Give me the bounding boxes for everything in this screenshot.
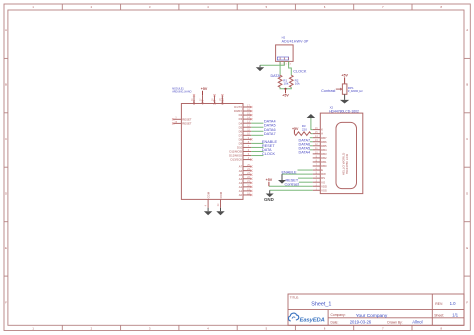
arduino pin D12/MISO [229,152,275,158]
svg-text:E: E [466,246,468,250]
arduino module MODULE1 labels [172,87,191,93]
lcd pin DB3 [313,151,327,156]
arduino pin D3 [239,117,253,122]
svg-text:Contrast: Contrast [321,89,336,93]
svg-text:2019-03-26: 2019-03-26 [350,320,372,325]
svg-text:1.0: 1.0 [450,301,457,306]
svg-text:COM: COM [207,191,211,198]
svg-text:RESET: RESET [182,122,192,126]
arduino pin A7 [239,164,253,169]
encoder inner marks [277,57,288,60]
rotary encoder H2 outline [276,45,294,62]
wire R3 to lcd A [311,133,313,135]
potentiometer wiper arrow [336,88,343,91]
arduino pin 3V3 [212,94,216,105]
lcd pin DB6 [313,139,327,144]
svg-text:Allnol: Allnol [412,320,422,325]
svg-text:A: A [466,28,468,32]
svg-text:CLOCK: CLOCK [293,70,307,74]
wire DATA4 stub at lcd [310,149,313,151]
svg-text:DATA4: DATA4 [299,151,311,155]
wire DATA5 stub [251,126,263,128]
svg-text:E: E [5,246,7,250]
svg-text:C: C [5,137,7,141]
encoder pin 2 [284,61,287,65]
rotary encoder H2 labels [282,36,309,44]
wire lcd K to ground [311,118,313,129]
+5V flag on arduino [201,87,208,95]
title block texts [290,296,459,325]
wire DATA6 stub [251,130,263,132]
arduino pin D2 [239,112,253,117]
svg-text:ARDUINO_NANO: ARDUINO_NANO [172,91,191,94]
arduino pin D6 [239,128,276,134]
svg-text:CLOCK: CLOCK [262,152,276,156]
lcd pin DB2 [313,155,327,160]
lcd pin K [313,127,323,132]
ground at encoder common [256,65,264,71]
arduino pin VIN [192,94,196,105]
wire DATA4 stub [251,122,263,124]
arduino pin RESET [172,117,192,121]
wire encoder DATA to R1 [279,61,281,75]
svg-text:+5V: +5V [282,94,289,98]
svg-text:Sheet:: Sheet: [434,313,444,317]
svg-text:REV:: REV: [435,302,443,306]
svg-text:D: D [466,192,468,196]
svg-text:R_3296W_EU: R_3296W_EU [348,90,363,93]
svg-text:D: D [5,192,7,196]
arduino pin +5V [200,95,204,105]
svg-text:+5V: +5V [201,87,208,91]
svg-text:ADU41HWV-3P: ADU41HWV-3P [282,39,309,43]
junction dot [284,88,286,90]
arduino pin A4 [239,176,253,181]
wire +5V to lcd VDD [269,185,313,187]
lcd X2 labels [329,106,359,114]
lcd pin RS [313,176,325,181]
svg-text:+5V: +5V [266,178,273,182]
wire joining R1 R2 bottoms [280,87,291,89]
potentiometer RP1 body [342,84,363,94]
wire encoder common to ground [260,61,284,65]
arduino pin D13/SCK [231,157,253,162]
arduino pin AREF [220,94,224,105]
svg-text:HD44780 LCD: HD44780 LCD [345,153,349,174]
EasyEDA logo [288,313,324,323]
svg-text:D13/SCK: D13/SCK [231,158,243,162]
wire encoder CLOCK to R2 [289,61,292,75]
arduino pin RESET [172,122,192,126]
svg-text:10k: 10k [295,82,300,86]
arduino pin A2 [239,184,253,189]
svg-text:1/1: 1/1 [452,312,458,317]
+5V flag at lcd VDD [266,178,273,186]
svg-text:TITLE:: TITLE: [290,296,299,300]
wire lcd RW to ground [282,173,313,175]
resistor R3 [294,124,311,135]
svg-text:+5V: +5V [341,74,348,78]
arduino module MODULE1 outline [181,104,243,200]
lcd pin A [313,131,323,136]
svg-text:C: C [466,137,468,141]
svg-text:EasyEDA: EasyEDA [300,317,325,323]
lcd pin DB1 [313,159,327,164]
wire DATA6 stub at lcd [310,141,313,143]
lcd pin DB5 [313,143,327,148]
arduino pin D11/MOSI [229,148,272,154]
lcd pin VDD [313,184,327,189]
wire RESET stub [251,146,263,148]
wire DATA5 stub at lcd [310,145,313,147]
arduino pin A3 [239,180,253,185]
arduino pin A6 [239,168,253,173]
ground under potentiometer [340,94,349,103]
lcd display window [336,122,357,188]
svg-text:10k: 10k [284,82,289,86]
ground at lcd VSS [266,190,274,197]
arduino pin D9 [239,140,278,146]
svg-text:Date:: Date: [331,320,339,324]
svg-text:220: 220 [302,127,307,131]
svg-text:Your Company: Your Company [356,313,388,319]
lcd pin E [313,167,323,172]
lcd X2 outline [320,113,363,194]
arduino pin A0 [239,192,253,197]
svg-text:B: B [466,83,468,87]
lcd pin VO [313,180,326,185]
wire ENABLE to lcd E [298,169,313,171]
wire DATA7 stub [251,134,263,136]
lcd pin DB0 [313,163,327,168]
wire ground to lcd VSS [270,189,313,191]
ground up at lcd K [307,114,316,118]
svg-text:COM: COM [219,191,223,198]
ground under arduino [216,208,224,216]
wire ENABLE stub [251,142,263,144]
wire Contrast to lcd VO [299,181,313,183]
ground at lcd RW [278,174,286,184]
svg-text:Drawn By:: Drawn By: [387,320,402,324]
arduino pin D4 [239,120,276,126]
svg-text:VSS: VSS [321,188,327,192]
arduino pin D7 [239,132,276,138]
svg-text:A0: A0 [239,193,243,197]
wire DATA stub [251,150,263,152]
svg-text:GND: GND [264,197,274,202]
svg-text:Sheet_1: Sheet_1 [311,302,331,308]
wire CLOCK stub [251,155,263,157]
lcd pin VSS [313,188,327,193]
resistor R2 [290,75,301,87]
wire RESET to lcd RS [298,177,313,179]
arduino pin D1/TX [234,104,252,109]
encoder pin 3 [289,61,292,65]
svg-text:Company:: Company: [331,313,346,317]
+5V flag above potentiometer [341,74,348,84]
+5V flag at R3 [292,127,299,134]
lcd pin DB7 [313,135,327,140]
+5V flag under resistors [282,89,289,98]
arduino pin D5 [239,124,276,130]
title block frame [288,294,464,325]
svg-text:HD44780LCD-1602: HD44780LCD-1602 [329,109,359,113]
svg-text:+5V: +5V [292,127,299,131]
arduino pin A1 [239,188,253,193]
arduino pin D8 [239,137,253,142]
arduino pin COM [206,191,211,207]
lcd pin RW [313,171,326,176]
wire DATA7 stub at lcd [310,137,313,139]
svg-text:DATA7: DATA7 [264,132,276,136]
svg-text:A: A [5,28,7,32]
resistor R1 [278,75,289,87]
arduino pin D0/RX [234,108,252,113]
encoder pin 1 [280,61,283,65]
arduino pin A5 [239,172,253,177]
arduino pin COM [218,191,223,207]
arduino pin D10 [237,144,275,150]
svg-text:B: B [5,83,7,87]
ground under arduino [204,208,212,216]
lcd pin DB4 [313,147,327,152]
